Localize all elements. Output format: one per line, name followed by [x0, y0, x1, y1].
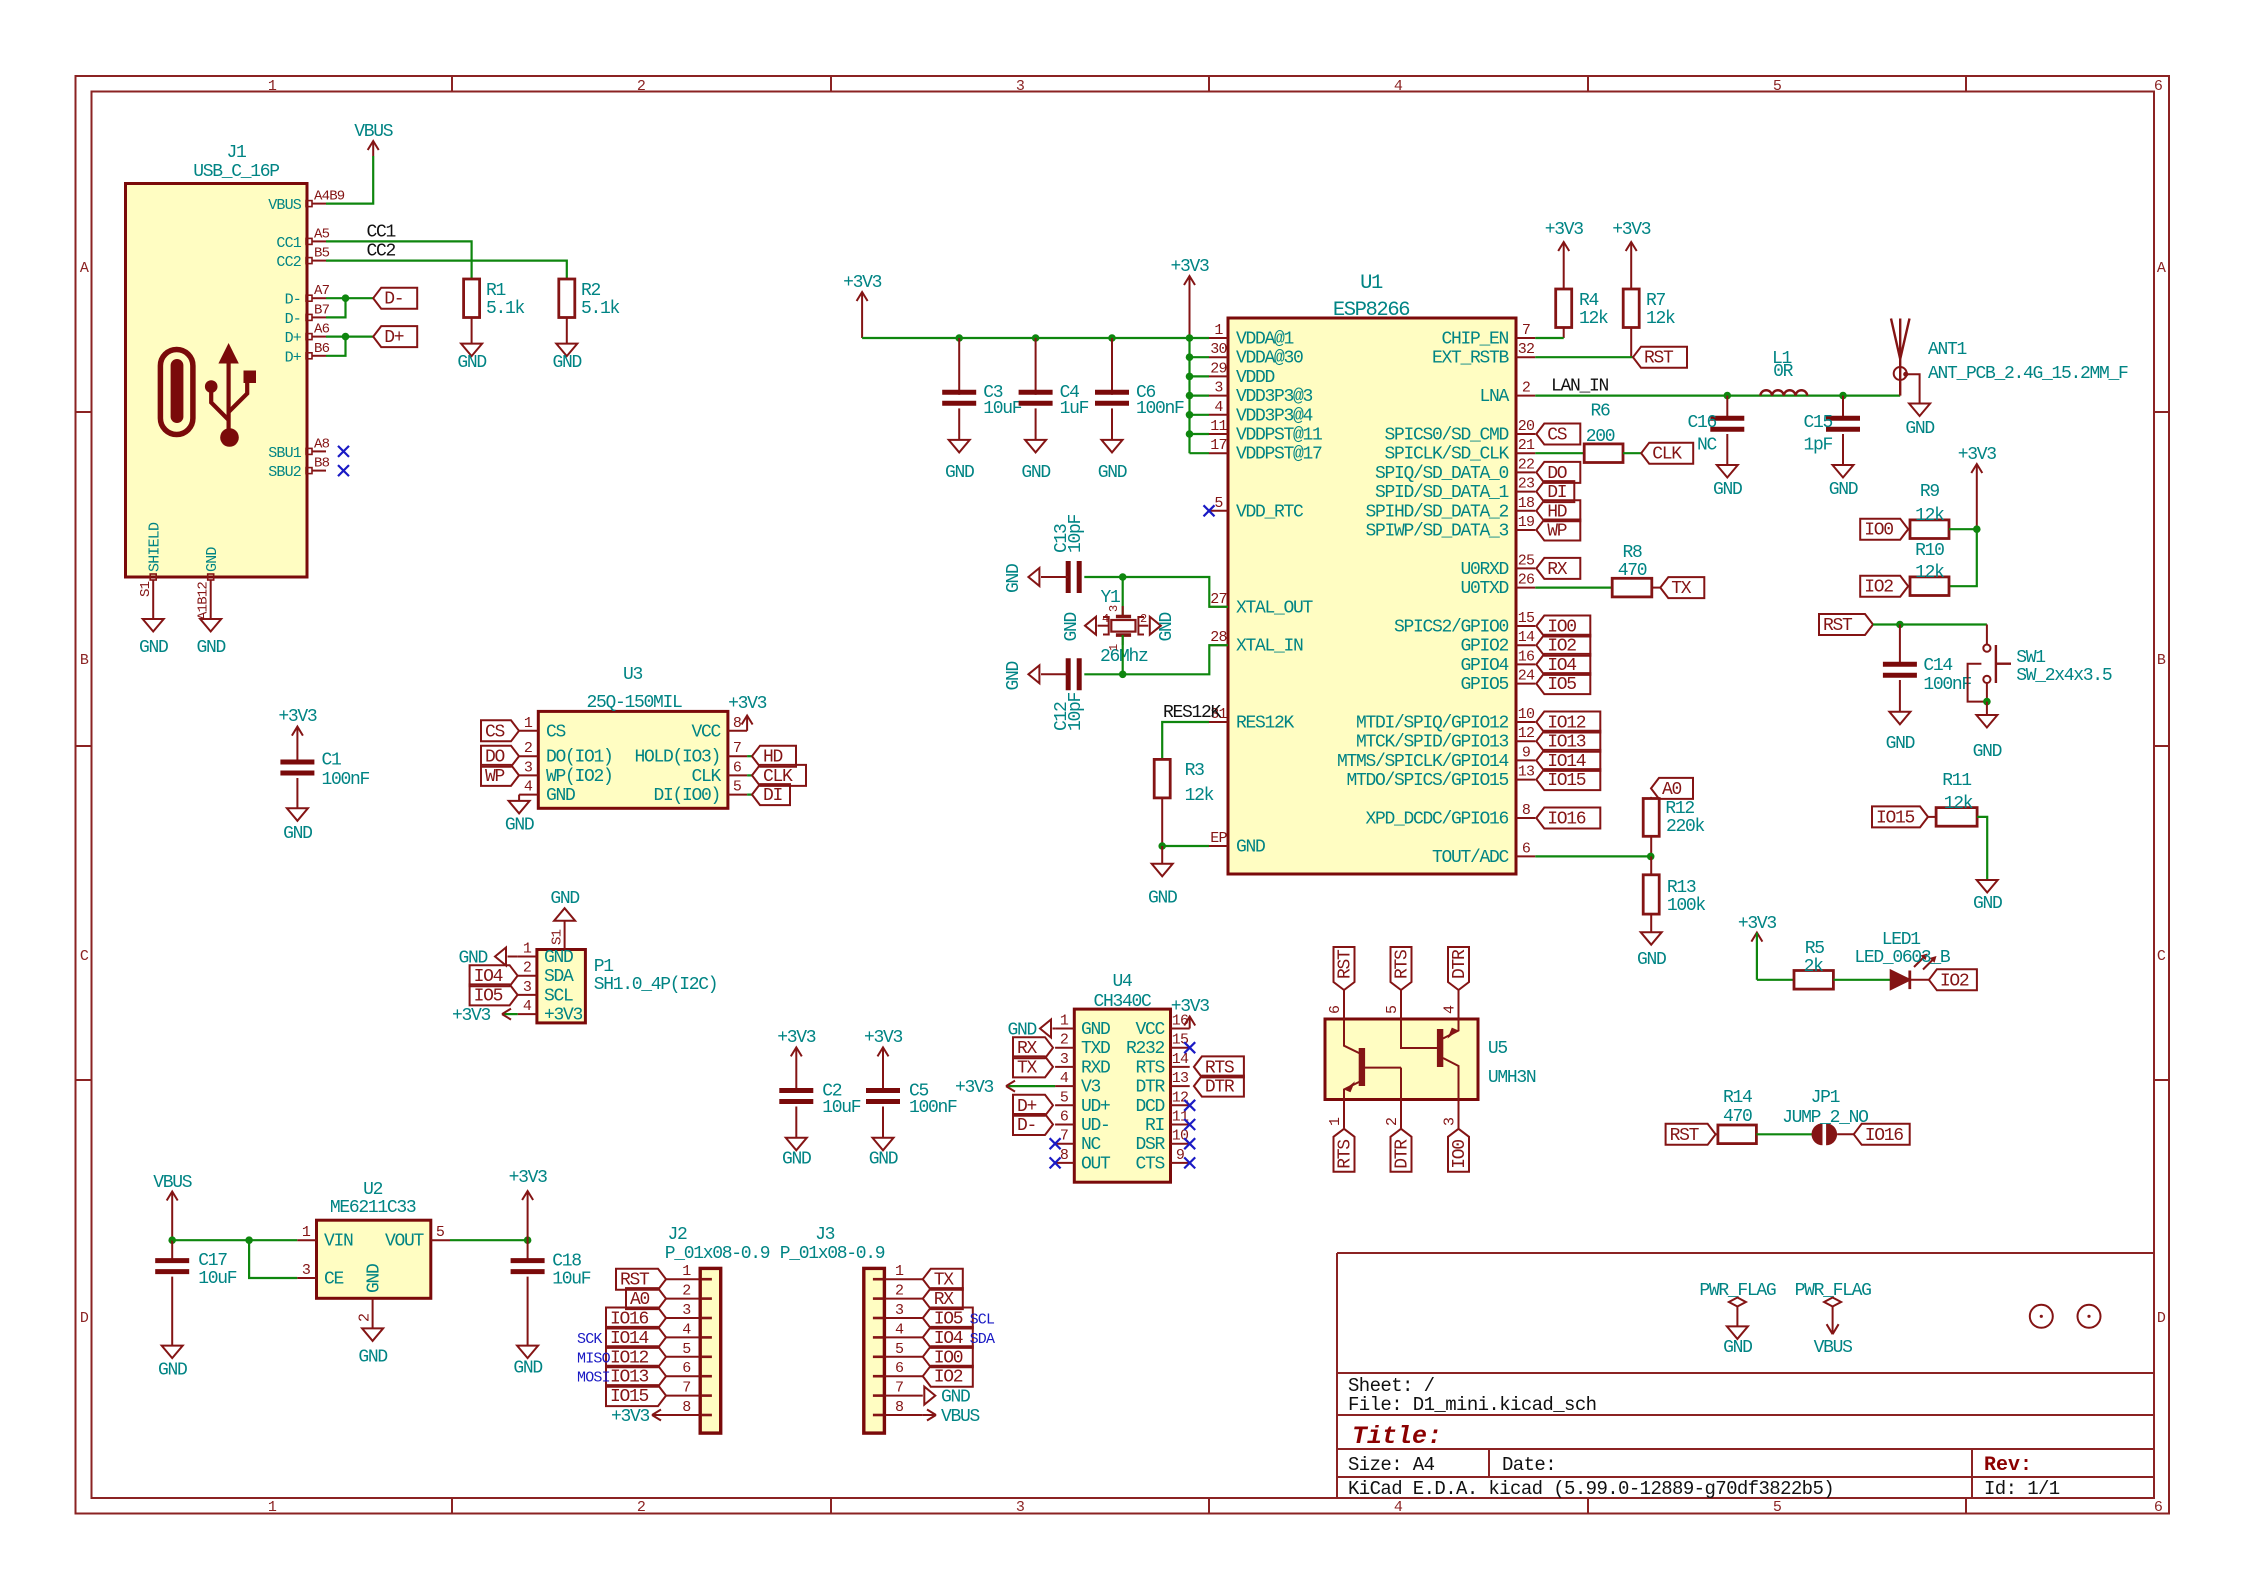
svg-text:5: 5 — [1384, 1005, 1401, 1014]
svg-text:DI: DI — [763, 786, 783, 806]
global label IO2 at J3 — [923, 1366, 973, 1388]
svg-text:RST: RST — [1670, 1126, 1700, 1146]
global label RTS at U4 — [1194, 1056, 1244, 1078]
global label TX at U4 — [1013, 1056, 1053, 1078]
svg-text:7: 7 — [1522, 322, 1530, 339]
ground below C6 — [1098, 440, 1127, 483]
antenna ANT1 — [1891, 319, 2128, 404]
ground below R3/EP — [1148, 864, 1177, 909]
svg-text:2: 2 — [637, 1499, 645, 1516]
svg-text:IO0: IO0 — [1864, 521, 1893, 541]
svg-text:S1: S1 — [138, 581, 154, 597]
svg-text:6: 6 — [1327, 1005, 1344, 1014]
svg-text:CH340C: CH340C — [1093, 992, 1152, 1012]
ground at U4 pin1 — [1007, 1020, 1055, 1041]
wire D+ — [326, 333, 373, 356]
svg-text:GND: GND — [1905, 419, 1934, 439]
global label IO16 at J2 — [606, 1308, 666, 1330]
capacitor C5 100nF — [866, 1082, 957, 1138]
power symbol +3V3 above U1 pin1 — [1170, 257, 1209, 338]
pin 5 of U5 — [1400, 990, 1402, 1019]
svg-text:1: 1 — [302, 1224, 311, 1241]
svg-text:D-: D- — [384, 290, 403, 310]
svg-text:GPIO5: GPIO5 — [1460, 675, 1508, 695]
global label CS at U1 — [1536, 424, 1580, 446]
svg-text:10uF: 10uF — [822, 1098, 861, 1118]
svg-text:11: 11 — [1210, 418, 1227, 435]
pin 5 of J3 — [884, 1356, 922, 1358]
svg-text:U1: U1 — [1360, 272, 1383, 295]
global label DTR at U4 — [1194, 1076, 1244, 1098]
svg-text:6: 6 — [2154, 1499, 2163, 1516]
power symbol +3V3 left of rail — [843, 273, 882, 338]
svg-text:2: 2 — [357, 1314, 374, 1322]
svg-text:+3V3: +3V3 — [611, 1407, 650, 1427]
svg-text:RST: RST — [1823, 616, 1853, 636]
no-connect SBU2 — [338, 465, 349, 476]
wire SPICLK to R6 — [1535, 452, 1584, 454]
pin 13 DTR of U4 — [1171, 1085, 1190, 1087]
pin 26 U0TXD of U1 — [1516, 587, 1535, 589]
resistor R13 100k — [1643, 856, 1705, 932]
svg-text:U3: U3 — [623, 665, 643, 685]
pin A7 D- of J1 — [306, 295, 312, 301]
ground below ANT1 — [1905, 404, 1934, 440]
text SCL SDA — [970, 1312, 995, 1348]
svg-text:S1: S1 — [550, 929, 566, 945]
svg-text:RX: RX — [1547, 560, 1568, 580]
pin 4 of U5 — [1458, 990, 1460, 1019]
logo circles — [2030, 1305, 2101, 1328]
svg-text:SPICLK/SD_CLK: SPICLK/SD_CLK — [1384, 445, 1509, 465]
pin A6 D+ of J1 — [306, 334, 312, 340]
svg-text:CHIP_EN: CHIP_EN — [1441, 330, 1508, 350]
svg-text:A6: A6 — [314, 322, 330, 338]
pin 6 TOUT/ADC of U1 — [1516, 855, 1535, 857]
pin 3 of U5 — [1458, 1100, 1460, 1129]
wire XTAL_OUT — [1084, 573, 1228, 607]
svg-text:12k: 12k — [1944, 794, 1973, 814]
ground at J3 pin7 — [924, 1387, 970, 1408]
svg-text:2: 2 — [524, 740, 532, 757]
svg-text:R14: R14 — [1723, 1088, 1752, 1108]
capacitor C3 10uF — [942, 334, 1022, 440]
pin 3 RXD of U4 — [1055, 1066, 1074, 1068]
svg-text:28: 28 — [1210, 629, 1227, 646]
svg-text:GND: GND — [513, 1359, 542, 1379]
pin 7 NC of U4 — [1055, 1143, 1074, 1145]
svg-text:A1B12: A1B12 — [196, 582, 212, 620]
pin 2 of J3 — [884, 1298, 922, 1300]
svg-text:21: 21 — [1518, 437, 1535, 454]
svg-text:RES12K: RES12K — [1163, 703, 1222, 723]
wire CC1 — [326, 223, 472, 280]
svg-text:8: 8 — [733, 715, 742, 732]
svg-text:GND: GND — [1004, 564, 1024, 593]
svg-text:GND: GND — [196, 638, 225, 658]
global label IO15 at R11 — [1872, 806, 1928, 828]
no-connect U4 OUT — [1050, 1157, 1061, 1168]
svg-text:V3: V3 — [1081, 1078, 1101, 1098]
ground below C16 — [1713, 465, 1742, 500]
svg-text:RTS: RTS — [1393, 950, 1413, 979]
capacitor C6 100nF — [1095, 334, 1184, 440]
svg-text:UMH3N: UMH3N — [1488, 1068, 1536, 1088]
svg-text:VDD3P3@3: VDD3P3@3 — [1236, 387, 1313, 407]
svg-text:2: 2 — [1384, 1118, 1401, 1126]
ground below J1 SHIELD — [139, 619, 168, 658]
svg-text:B: B — [2157, 652, 2166, 669]
svg-text:IO5: IO5 — [1547, 675, 1576, 695]
svg-text:U5: U5 — [1488, 1039, 1508, 1059]
global label CLK at U3 — [747, 765, 806, 787]
svg-text:200: 200 — [1586, 427, 1615, 447]
svg-text:1: 1 — [268, 78, 277, 95]
pin 15 R232 of U4 — [1171, 1047, 1190, 1049]
resistor R7 12k — [1623, 289, 1675, 357]
svg-text:+3V3: +3V3 — [278, 707, 317, 727]
svg-text:9: 9 — [1176, 1147, 1184, 1164]
pin 16 VCC of U4 — [1171, 1028, 1190, 1030]
no-connect U4 NC — [1050, 1138, 1061, 1149]
global label RST at C14 — [1819, 614, 1873, 636]
svg-text:220k: 220k — [1666, 817, 1705, 837]
transistor Q-left of U5 — [1344, 1019, 1401, 1100]
ground below C5 — [869, 1138, 898, 1170]
wire R14 to JP1 — [1756, 1133, 1813, 1135]
svg-text:DSR: DSR — [1135, 1135, 1165, 1155]
svg-text:XTAL_IN: XTAL_IN — [1236, 637, 1303, 657]
pin 6 CLK of U3 — [728, 774, 747, 776]
svg-text:26: 26 — [1518, 572, 1535, 589]
svg-text:10uF: 10uF — [983, 399, 1022, 419]
IC U2 ME6211C33 — [297, 1180, 450, 1328]
svg-text:+3V3: +3V3 — [1958, 445, 1997, 465]
resistor R8 470 — [1612, 543, 1652, 597]
pin EP GND of U1 — [1209, 845, 1228, 847]
svg-text:SBU1: SBU1 — [268, 445, 302, 462]
svg-text:C: C — [80, 948, 89, 965]
power flag PWR_FLAG VBUS — [1795, 1281, 1872, 1334]
pin 20 SPICS0/SD_CMD of U1 — [1516, 433, 1535, 435]
svg-text:Rev:: Rev: — [1984, 1454, 2032, 1477]
global label IO0 at U1 — [1536, 616, 1590, 638]
svg-text:470: 470 — [1618, 561, 1647, 581]
svg-text:NC: NC — [1081, 1135, 1102, 1155]
svg-text:RI: RI — [1145, 1116, 1165, 1136]
no-connect U4 pin row 5 — [1184, 1119, 1195, 1130]
svg-text:GND: GND — [945, 463, 974, 483]
pin 2 TXD of U4 — [1055, 1047, 1074, 1049]
svg-text:VDD3P3@4: VDD3P3@4 — [1236, 406, 1313, 426]
capacitor C17 10uF — [155, 1236, 237, 1345]
svg-text:DTR: DTR — [1205, 1078, 1235, 1098]
svg-text:GND: GND — [1021, 463, 1050, 483]
pin 32 EXT_RSTB of U1 — [1516, 356, 1535, 358]
global label TX at J3 — [923, 1269, 963, 1291]
wire TOUT/ADC — [1535, 853, 1654, 861]
svg-text:13: 13 — [1172, 1070, 1189, 1087]
global label IO13 at J2 — [606, 1366, 666, 1388]
svg-text:A: A — [80, 260, 89, 277]
svg-text:1pF: 1pF — [1803, 436, 1832, 456]
ground left of C13 — [1004, 564, 1039, 593]
svg-text:VDDPST@11: VDDPST@11 — [1236, 426, 1322, 446]
svg-text:29: 29 — [1210, 360, 1226, 377]
global label IO15 at U1 — [1536, 769, 1600, 791]
svg-text:GND: GND — [1973, 742, 2002, 762]
pin 8 OUT of U4 — [1055, 1162, 1074, 1164]
global label IO0 below U5 — [1448, 1129, 1470, 1172]
svg-text:11: 11 — [1172, 1109, 1189, 1126]
power flag PWR_FLAG GND — [1699, 1281, 1776, 1326]
svg-text:IO15: IO15 — [1876, 808, 1915, 828]
global label IO14 at U1 — [1536, 750, 1600, 772]
svg-text:C16: C16 — [1687, 413, 1716, 433]
power symbol +3V3 at U4 VCC — [1171, 997, 1210, 1029]
svg-text:R8: R8 — [1622, 543, 1642, 563]
pin 8 of J2 — [666, 1414, 700, 1416]
resistor R5 2k — [1794, 939, 1833, 989]
svg-text:7: 7 — [733, 740, 741, 757]
svg-text:WP: WP — [485, 767, 505, 787]
svg-text:10pF: 10pF — [1066, 514, 1086, 553]
power symbol +3V3 above R9 — [1958, 445, 1997, 529]
ground below C17 — [158, 1346, 187, 1381]
pin 1 of J3 — [884, 1278, 922, 1280]
svg-text:VBUS: VBUS — [153, 1173, 192, 1193]
svg-text:1: 1 — [524, 715, 533, 732]
pin 17 VDDPST@17 of U1 — [1209, 452, 1228, 454]
wire R6 to CLK — [1623, 452, 1641, 454]
svg-text:UD+: UD+ — [1081, 1097, 1110, 1117]
svg-text:TOUT/ADC: TOUT/ADC — [1432, 848, 1510, 868]
pin 18 SPIHD/SD_DATA_2 of U1 — [1516, 510, 1535, 512]
svg-text:VCC: VCC — [1135, 1020, 1165, 1040]
svg-text:Id: 1/1: Id: 1/1 — [1984, 1478, 2060, 1500]
pin 14 RTS of U4 — [1171, 1066, 1190, 1068]
power symbol VBUS at J1 — [326, 122, 393, 204]
svg-text:GND: GND — [204, 547, 221, 572]
svg-text:VBUS: VBUS — [354, 122, 393, 142]
power symbol +3V3 above C5 — [864, 1028, 903, 1091]
svg-text:DCD: DCD — [1135, 1097, 1164, 1117]
svg-text:5.1k: 5.1k — [581, 299, 620, 319]
pin 13 MTDO/SPICS/GPIO15 of U1 — [1516, 779, 1535, 781]
svg-text:GND: GND — [457, 353, 486, 373]
svg-text:IO2: IO2 — [1864, 578, 1893, 598]
svg-text:IO15: IO15 — [610, 1387, 649, 1407]
svg-text:MTDO/SPICS/GPIO15: MTDO/SPICS/GPIO15 — [1346, 771, 1508, 791]
svg-text:GND: GND — [1236, 838, 1265, 858]
svg-text:C14: C14 — [1923, 656, 1952, 676]
capacitor C18 10uF — [511, 1240, 591, 1345]
global label D+ — [373, 326, 417, 348]
svg-text:+3V3: +3V3 — [1170, 257, 1209, 277]
global label IO0 at R9 — [1860, 519, 1908, 541]
svg-text:File: D1_mini.kicad_sch: File: D1_mini.kicad_sch — [1348, 1394, 1596, 1416]
svg-text:Title:: Title: — [1352, 1422, 1442, 1451]
svg-text:C: C — [2157, 948, 2166, 965]
pin 25 U0RXD of U1 — [1516, 567, 1535, 569]
svg-text:CS: CS — [546, 722, 566, 742]
svg-text:B8: B8 — [314, 456, 330, 472]
svg-text:5: 5 — [733, 779, 742, 796]
pin 5 of J2 — [666, 1356, 700, 1358]
svg-text:20: 20 — [1518, 418, 1535, 435]
connector J3 P_01x08-0.9 — [780, 1225, 923, 1433]
global label IO2 at U1 — [1536, 635, 1590, 657]
pin 1 of J2 — [666, 1278, 700, 1280]
svg-text:9: 9 — [1522, 744, 1530, 761]
pin 4 +3V3 of P1 — [518, 1013, 537, 1015]
svg-text:WP(IO2): WP(IO2) — [546, 767, 613, 787]
svg-text:GPIO2: GPIO2 — [1460, 637, 1508, 657]
global label IO4 at U1 — [1536, 654, 1590, 676]
svg-text:15: 15 — [1172, 1032, 1189, 1049]
svg-text:A4B9: A4B9 — [314, 189, 345, 205]
capacitor C2 10uF — [779, 1082, 861, 1138]
svg-text:SPICS2/GPIO0: SPICS2/GPIO0 — [1394, 618, 1509, 638]
pin 8 XPD_DCDC/GPIO16 of U1 — [1516, 817, 1535, 819]
ground below J1 GND pin — [196, 619, 225, 658]
pin 22 SPIQ/SD_DATA_0 of U1 — [1516, 471, 1535, 473]
svg-text:2: 2 — [682, 1283, 690, 1300]
svg-text:19: 19 — [1518, 514, 1534, 531]
svg-text:OUT: OUT — [1081, 1154, 1111, 1174]
no-connect U4 pin row 4 — [1184, 1100, 1195, 1111]
global label IO12 at U1 — [1536, 712, 1600, 734]
svg-text:VDDPST@17: VDDPST@17 — [1236, 445, 1322, 465]
svg-text:SPIQ/SD_DATA_0: SPIQ/SD_DATA_0 — [1375, 464, 1509, 484]
pin 7 HOLD(IO3) of U3 — [728, 755, 747, 757]
svg-text:3: 3 — [682, 1302, 691, 1319]
svg-text:D: D — [2157, 1310, 2166, 1327]
svg-text:2: 2 — [1140, 612, 1147, 626]
svg-text:3: 3 — [1016, 78, 1025, 95]
IC U1 ESP8266 — [1209, 272, 1535, 874]
pin 5 VDD_RTC of U1 — [1209, 510, 1228, 512]
pin 5 VOUT of U2 — [431, 1239, 450, 1241]
svg-text:GND: GND — [869, 1150, 898, 1170]
svg-text:C18: C18 — [552, 1252, 581, 1272]
global label RTS above U5 — [1391, 947, 1413, 990]
svg-text:CLK: CLK — [1652, 445, 1682, 465]
svg-text:3: 3 — [1060, 1051, 1069, 1068]
svg-text:6: 6 — [1060, 1109, 1069, 1126]
svg-text:IO2: IO2 — [934, 1368, 963, 1388]
power symbol +3V3 at J2 pin8 — [611, 1407, 666, 1427]
pin 12 MTCK/SPID/GPIO13 of U1 — [1516, 740, 1535, 742]
resistor R12 220k — [1643, 797, 1704, 857]
capacitor C13 10pF — [1041, 514, 1086, 593]
svg-text:2k: 2k — [1804, 957, 1824, 977]
svg-text:DTR: DTR — [1450, 949, 1470, 979]
svg-text:LAN_IN: LAN_IN — [1551, 377, 1609, 397]
svg-text:+3V3: +3V3 — [843, 273, 882, 293]
pin 16 GPIO4 of U1 — [1516, 663, 1535, 665]
svg-text:2: 2 — [1060, 1032, 1068, 1049]
svg-text:U0RXD: U0RXD — [1460, 560, 1508, 580]
svg-text:C15: C15 — [1803, 413, 1832, 433]
global label DO at U3 — [481, 746, 519, 768]
ground below U2 — [358, 1328, 387, 1367]
pin 8 of J3 — [884, 1414, 922, 1416]
svg-text:B7: B7 — [314, 302, 330, 318]
global label CS at U3 — [481, 720, 519, 742]
svg-text:R1: R1 — [486, 281, 506, 301]
ground above P1 — [550, 889, 579, 921]
ground below C2 — [782, 1138, 811, 1170]
svg-text:GND: GND — [1723, 1338, 1752, 1358]
svg-text:VDDD: VDDD — [1236, 368, 1275, 388]
svg-text:12k: 12k — [1915, 506, 1944, 526]
svg-text:7: 7 — [682, 1380, 690, 1397]
svg-text:GND: GND — [550, 889, 579, 909]
svg-text:1: 1 — [1214, 322, 1223, 339]
ground below PWR_FLAG — [1723, 1326, 1752, 1358]
svg-text:CC2: CC2 — [276, 254, 301, 271]
svg-text:IO5: IO5 — [474, 986, 503, 1006]
svg-text:VIN: VIN — [324, 1232, 353, 1252]
global label RST at J2 — [616, 1269, 666, 1291]
svg-text:VBUS: VBUS — [1814, 1338, 1853, 1358]
svg-text:GND: GND — [553, 353, 582, 373]
pin 4 of J3 — [884, 1336, 922, 1338]
svg-text:P_01x08-0.9: P_01x08-0.9 — [780, 1244, 885, 1264]
svg-text:8: 8 — [1522, 802, 1531, 819]
global label IO4 at J3 — [923, 1327, 973, 1349]
svg-text:17: 17 — [1210, 437, 1226, 454]
wire EP ground — [1158, 842, 1209, 864]
global label RST at R7 — [1633, 347, 1687, 369]
capacitor C16 NC — [1687, 396, 1744, 465]
pin 3 CE of U2 — [297, 1277, 316, 1279]
wire VDD feeds — [1186, 334, 1209, 453]
svg-text:WP: WP — [1547, 522, 1567, 542]
svg-text:SW_2x4x3.5: SW_2x4x3.5 — [2016, 666, 2112, 686]
pin 6 of U5 — [1343, 990, 1345, 1019]
svg-text:+3V3: +3V3 — [955, 1078, 994, 1098]
svg-text:3: 3 — [1214, 380, 1223, 397]
svg-text:VDDA@1: VDDA@1 — [1236, 330, 1294, 350]
power symbol +3V3 above R4 — [1545, 220, 1584, 289]
svg-text:4: 4 — [682, 1321, 691, 1338]
global label DO at U1 — [1536, 462, 1580, 484]
svg-text:30: 30 — [1210, 341, 1227, 358]
svg-text:Date:: Date: — [1502, 1454, 1556, 1476]
svg-text:470: 470 — [1723, 1107, 1752, 1127]
wire +3V3 to R5 — [1757, 979, 1794, 981]
power symbol +3V3 at P1 pin4 — [452, 1006, 518, 1026]
svg-text:8: 8 — [1060, 1147, 1069, 1164]
svg-text:Size: A4: Size: A4 — [1348, 1454, 1435, 1476]
svg-text:+3V3: +3V3 — [452, 1006, 491, 1026]
svg-text:B6: B6 — [314, 341, 330, 357]
svg-text:J1: J1 — [226, 143, 246, 163]
pin 4 GND of U3 — [519, 794, 538, 796]
capacitor C15 1pF — [1803, 396, 1860, 465]
svg-text:VDD_RTC: VDD_RTC — [1236, 502, 1304, 522]
svg-text:GND: GND — [505, 816, 534, 836]
svg-text:EXT_RSTB: EXT_RSTB — [1432, 349, 1510, 369]
title block — [1337, 1253, 2154, 1500]
svg-text:24: 24 — [1518, 668, 1535, 685]
resistor R11 12k — [1928, 771, 1977, 826]
svg-text:JP1: JP1 — [1811, 1088, 1840, 1108]
pin 7 of J3 — [884, 1395, 922, 1397]
svg-text:R13: R13 — [1667, 878, 1696, 898]
